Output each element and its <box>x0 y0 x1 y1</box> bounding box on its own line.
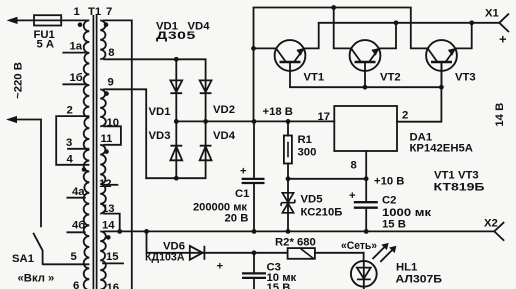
svg-text:4а: 4а <box>72 186 85 198</box>
svg-text:6: 6 <box>73 280 79 289</box>
svg-text:12: 12 <box>99 178 112 190</box>
svg-text:10: 10 <box>107 117 120 129</box>
svg-text:VT3: VT3 <box>455 72 476 84</box>
svg-text:С2: С2 <box>382 195 396 207</box>
svg-text:1: 1 <box>74 6 80 18</box>
svg-text:R1: R1 <box>298 134 312 146</box>
svg-text:КС210Б: КС210Б <box>301 207 343 219</box>
svg-text:VD5: VD5 <box>301 194 323 206</box>
svg-text:SA1: SA1 <box>12 253 34 265</box>
svg-text:R2* 680: R2* 680 <box>275 237 316 249</box>
svg-text:«Вкл »: «Вкл » <box>18 273 55 285</box>
svg-text:VT2: VT2 <box>380 72 401 84</box>
svg-text:15 В: 15 В <box>382 219 406 231</box>
svg-text:5 А: 5 А <box>37 39 55 51</box>
svg-text:+: + <box>349 190 356 202</box>
svg-text:«Сеть»: «Сеть» <box>341 240 377 252</box>
svg-text:4: 4 <box>67 154 74 166</box>
svg-text:7: 7 <box>106 6 112 18</box>
svg-text:3: 3 <box>66 137 72 149</box>
svg-text:+: + <box>499 32 507 47</box>
svg-text:Д305: Д305 <box>156 29 196 41</box>
svg-text:2: 2 <box>67 105 73 117</box>
svg-text:17: 17 <box>318 111 331 123</box>
svg-text:14 В: 14 В <box>494 103 506 127</box>
svg-text:13: 13 <box>102 203 115 215</box>
svg-text:VT1: VT1 <box>434 170 455 182</box>
svg-text:+18 В: +18 В <box>263 106 293 118</box>
svg-text:+: + <box>217 261 224 273</box>
svg-text:11: 11 <box>101 133 113 145</box>
svg-text:16: 16 <box>107 282 120 289</box>
svg-text:5: 5 <box>71 251 77 263</box>
svg-text:VT3: VT3 <box>458 170 479 182</box>
svg-text:VD3: VD3 <box>149 130 171 142</box>
svg-text:X1: X1 <box>485 8 499 20</box>
svg-text:9: 9 <box>108 77 114 89</box>
svg-text:VD2: VD2 <box>213 104 235 116</box>
svg-text:1000 мк: 1000 мк <box>382 207 431 219</box>
svg-text:14: 14 <box>102 220 115 232</box>
svg-text:VD4: VD4 <box>213 130 236 142</box>
svg-text:1б: 1б <box>70 72 83 84</box>
svg-text:КР142ЕН5А: КР142ЕН5А <box>410 143 473 155</box>
svg-text:2: 2 <box>402 110 408 122</box>
svg-text:КТ819Б: КТ819Б <box>434 182 485 194</box>
svg-text:8: 8 <box>351 160 357 172</box>
svg-text:HL1: HL1 <box>396 262 417 274</box>
svg-text:АЛ307Б: АЛ307Б <box>396 274 443 286</box>
svg-text:+: + <box>240 166 247 178</box>
svg-text:КД103А: КД103А <box>145 252 185 264</box>
svg-text:Х2: Х2 <box>484 218 498 230</box>
svg-text:300: 300 <box>298 147 317 159</box>
svg-text:VT1: VT1 <box>304 72 325 84</box>
svg-text:VD1: VD1 <box>149 106 171 118</box>
svg-text:20 В: 20 В <box>225 213 249 225</box>
svg-text:15 В: 15 В <box>267 282 291 289</box>
svg-text:8: 8 <box>108 47 114 59</box>
svg-text:4б: 4б <box>72 220 85 232</box>
svg-text:1а: 1а <box>70 41 83 53</box>
svg-text:15: 15 <box>106 251 119 263</box>
svg-text:С1: С1 <box>235 188 249 200</box>
svg-text:Т1: Т1 <box>88 6 101 18</box>
svg-text:~220 В: ~220 В <box>13 62 25 99</box>
svg-text:+10 В: +10 В <box>374 176 404 188</box>
